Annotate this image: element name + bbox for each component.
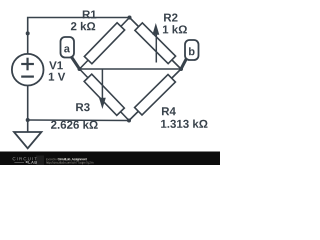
node b box — [185, 40, 199, 60]
wire: middle wire node a to node b — [80, 68, 182, 70]
R2 variable-resistor arrow (points up) — [152, 23, 159, 63]
label R4 — [162, 107, 176, 115]
wire: R2 diagonal T to b — [130, 18, 182, 70]
voltage source V1 — [12, 54, 44, 86]
watermark logo LAB — [14, 161, 24, 163]
wire: R4 diagonal B to b — [129, 69, 181, 121]
resistor R2 body — [135, 23, 176, 64]
watermark line 1 — [46, 158, 57, 160]
watermark line 2 — [46, 161, 93, 164]
node b stub — [181, 58, 187, 70]
resistor R4 body — [135, 74, 176, 115]
label 1.313 kOhm — [161, 119, 207, 127]
node a box — [61, 37, 75, 58]
wire: bottom junction to bottom node B — [28, 119, 129, 122]
label 1 kOhm — [163, 25, 187, 33]
R3 variable-resistor arrow (points down) — [99, 70, 106, 110]
resistor R1 body — [84, 23, 124, 64]
wire: ground stub — [27, 120, 29, 132]
ground — [14, 132, 41, 148]
label 1 V — [49, 73, 65, 81]
resistor R3 body — [84, 74, 124, 115]
wire: R1 diagonal a to T — [80, 18, 130, 70]
junction dot node B — [127, 119, 131, 123]
watermark logo CIRCUIT — [13, 157, 37, 160]
node a stub — [71, 56, 80, 70]
label R2 — [164, 13, 177, 21]
label R3 — [76, 103, 90, 111]
wire: V1 bottom to bottom junction — [27, 86, 29, 120]
junction dot node a — [78, 67, 82, 71]
label 2.626 kOhm — [51, 120, 98, 128]
junction dot node b — [179, 67, 183, 71]
label R1 — [83, 10, 97, 18]
label V1 — [49, 61, 63, 69]
wire: R3 diagonal a to B — [80, 69, 130, 121]
label 2 kOhm — [71, 22, 95, 30]
junction dot bottom-left — [26, 118, 30, 122]
junction dot node T — [128, 16, 132, 20]
junction dot top-left — [26, 31, 30, 35]
watermark bar — [0, 152, 220, 166]
wire: V1 top to top node T — [28, 18, 130, 54]
